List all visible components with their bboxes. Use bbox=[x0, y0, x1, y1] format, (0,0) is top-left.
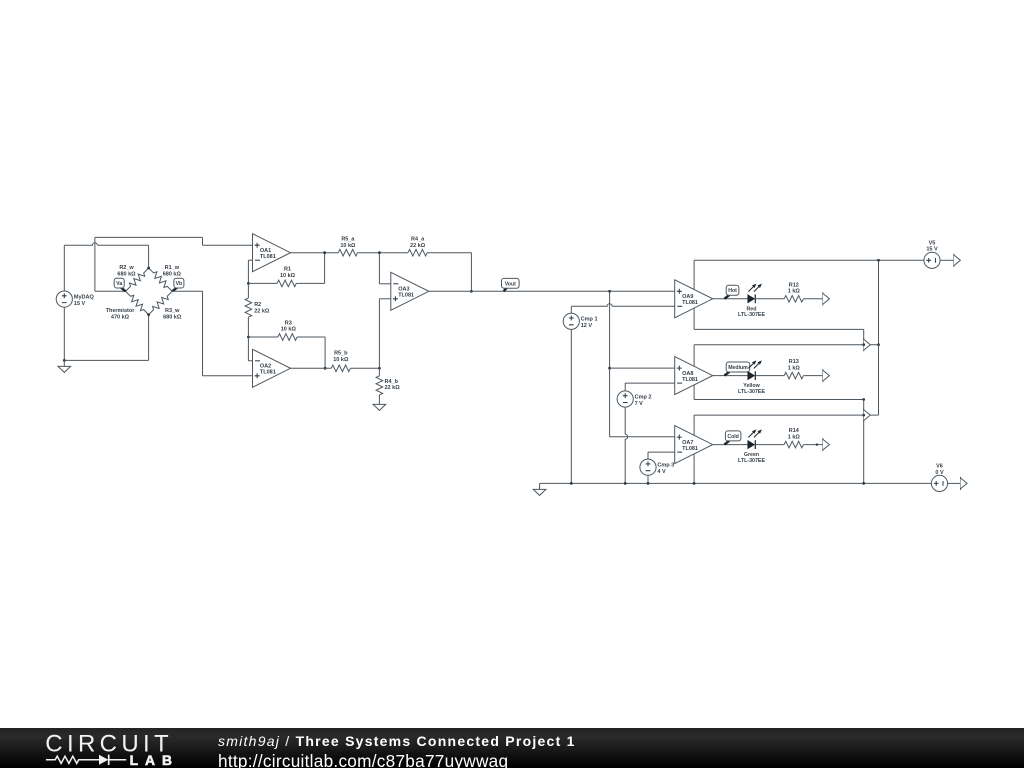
svg-text:LTL-307EE: LTL-307EE bbox=[738, 312, 765, 318]
svg-text:22 kΩ: 22 kΩ bbox=[254, 308, 270, 314]
svg-text:TL081: TL081 bbox=[398, 293, 414, 299]
svg-text:0 V: 0 V bbox=[935, 470, 944, 476]
svg-text:MyDAQ: MyDAQ bbox=[74, 295, 95, 301]
svg-text:680 kΩ: 680 kΩ bbox=[163, 272, 182, 278]
svg-text:LTL-307EE: LTL-307EE bbox=[738, 389, 765, 395]
svg-text:1 kΩ: 1 kΩ bbox=[788, 289, 801, 295]
svg-text:470 kΩ: 470 kΩ bbox=[111, 315, 130, 321]
svg-text:LTL-307EE: LTL-307EE bbox=[738, 458, 765, 464]
svg-text:R3_w: R3_w bbox=[165, 308, 180, 314]
svg-text:Hot: Hot bbox=[728, 288, 737, 294]
svg-text:Cmp 1: Cmp 1 bbox=[581, 317, 598, 323]
svg-text:680 kΩ: 680 kΩ bbox=[163, 315, 182, 321]
svg-text:LAB: LAB bbox=[130, 753, 179, 768]
svg-text:Cold: Cold bbox=[727, 434, 739, 440]
svg-text:4 V: 4 V bbox=[657, 469, 666, 475]
svg-text:R1_w: R1_w bbox=[165, 265, 180, 271]
svg-text:R5_a: R5_a bbox=[341, 237, 355, 243]
svg-text:1 kΩ: 1 kΩ bbox=[788, 366, 801, 372]
svg-text:R4_b: R4_b bbox=[385, 379, 399, 385]
svg-text:R12: R12 bbox=[789, 282, 799, 288]
svg-text:TL081: TL081 bbox=[260, 370, 276, 376]
svg-text:1 kΩ: 1 kΩ bbox=[788, 435, 801, 441]
svg-text:R4_a: R4_a bbox=[411, 237, 425, 243]
svg-text:10 kΩ: 10 kΩ bbox=[333, 357, 349, 363]
svg-text:R13: R13 bbox=[789, 359, 799, 365]
svg-text:Cmp 3: Cmp 3 bbox=[657, 463, 674, 469]
svg-text:Cmp 2: Cmp 2 bbox=[635, 394, 652, 400]
svg-text:22 kΩ: 22 kΩ bbox=[410, 243, 426, 249]
svg-text:680 kΩ: 680 kΩ bbox=[117, 272, 136, 278]
svg-text:Va: Va bbox=[116, 281, 122, 287]
svg-text:12 V: 12 V bbox=[581, 323, 593, 329]
svg-text:Vout: Vout bbox=[505, 281, 516, 287]
svg-text:TL081: TL081 bbox=[682, 377, 698, 383]
svg-text:V5: V5 bbox=[929, 240, 936, 246]
svg-text:R3: R3 bbox=[285, 320, 292, 326]
svg-text:Thermistor: Thermistor bbox=[106, 308, 136, 314]
svg-text:R5_b: R5_b bbox=[334, 350, 348, 356]
svg-text:22 kΩ: 22 kΩ bbox=[385, 385, 401, 391]
svg-text:R14: R14 bbox=[789, 428, 800, 434]
svg-text:10 kΩ: 10 kΩ bbox=[281, 327, 297, 333]
svg-text:V6: V6 bbox=[936, 464, 943, 470]
svg-text:15 V: 15 V bbox=[926, 247, 938, 253]
svg-text:TL081: TL081 bbox=[682, 446, 698, 452]
svg-text:15 V: 15 V bbox=[74, 301, 86, 307]
svg-text:Vb: Vb bbox=[176, 281, 183, 287]
svg-text:R2_w: R2_w bbox=[119, 265, 134, 271]
svg-text:10 kΩ: 10 kΩ bbox=[340, 243, 356, 249]
svg-text:TL081: TL081 bbox=[260, 254, 276, 260]
svg-text:7 V: 7 V bbox=[635, 401, 644, 407]
svg-text:Medium: Medium bbox=[728, 365, 748, 371]
svg-text:TL081: TL081 bbox=[682, 300, 698, 306]
svg-text:10 kΩ: 10 kΩ bbox=[280, 273, 296, 279]
svg-text:R1: R1 bbox=[284, 267, 291, 273]
svg-text:R2: R2 bbox=[254, 302, 261, 308]
